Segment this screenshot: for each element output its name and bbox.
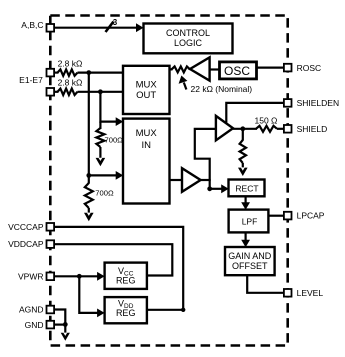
svg-text:3: 3 [113,18,118,27]
node dot vcccap corner [181,308,185,312]
svg-text:2.8 kΩ: 2.8 kΩ [58,59,83,69]
arrow into gain [241,240,250,248]
svg-text:VDDCAP: VDDCAP [8,239,44,249]
bus slash [106,22,114,33]
wire shield amp input [195,129,216,189]
arrow into control logic [136,23,144,32]
svg-text:SHIELD: SHIELD [297,124,328,134]
wire inverter to osc [210,68,220,70]
arrow into vcc reg [97,272,105,281]
resistor 2.8k upper [58,69,78,75]
resistor 700 lower [85,183,93,208]
pin VPWR [47,273,55,281]
osc box [220,62,257,79]
node dot rect in [207,186,212,191]
lpf box [229,210,269,233]
svg-text:LPF: LPF [242,216,258,226]
svg-text:GAIN AND: GAIN AND [228,251,272,261]
pin VCCCAP [47,223,55,231]
buffer amp [182,168,201,192]
wire rect to lpf [245,196,247,204]
rect box [229,180,265,197]
open arrow down shield resistor [238,168,248,176]
pin SHIELDEN [284,99,292,107]
svg-text:OFFSET: OFFSET [232,261,268,271]
svg-text:OUT: OUT [136,90,156,101]
pin LEVEL [284,289,292,297]
wire E1 upper [55,71,59,73]
svg-text:LOGIC: LOGIC [174,38,203,48]
wire to rect [210,188,223,190]
wire shielden [226,103,284,123]
svg-text:ROSC: ROSC [297,63,322,73]
wire E1 branch down [88,73,90,184]
arrow into vdd reg [97,309,105,318]
node dot gnd [63,322,68,327]
svg-text:REG: REG [116,308,136,318]
svg-text:GND: GND [25,320,44,330]
resistor 700 upper [99,122,101,129]
inverter to osc [190,57,210,80]
svg-text:A,B,C: A,B,C [21,20,43,30]
vdd reg box [105,297,147,323]
wire 150 to shield pin [277,128,283,130]
gain and offset box [225,247,275,275]
chip boundary dashed [50,16,287,346]
wire shield out to 150 [233,128,257,130]
wire buffer out [201,179,211,181]
node dot E2 [98,89,103,94]
wire vpwr [55,275,99,277]
svg-text:MUX: MUX [136,128,158,139]
ground arrow [61,333,70,341]
svg-text:CONTROL: CONTROL [166,28,210,38]
resistor 2.8k lower [58,89,78,95]
svg-text:150 Ω: 150 Ω [255,115,278,125]
vcc reg box [105,263,147,289]
svg-text:E1-E7: E1-E7 [19,75,43,85]
mux out U2 [123,66,170,114]
svg-text:VPWR: VPWR [18,271,44,281]
wire E2 branch down to mux in [100,92,117,122]
svg-text:IN: IN [141,140,151,151]
svg-text:LPCAP: LPCAP [297,211,325,221]
resistor shield internal [242,129,244,141]
svg-text:RECT: RECT [235,184,258,194]
wire lpf to gain [245,232,247,241]
pin AGND [47,306,55,314]
wire mux out to 22k [170,68,173,70]
wire E1 lower [55,91,59,93]
svg-text:REG: REG [116,275,136,285]
wire to mux in lower [89,174,117,176]
wire gnd [55,324,66,326]
wire osc to rosc [257,66,284,68]
node dot E1 [86,70,91,75]
pin A,B,C [47,24,55,32]
svg-text:700Ω: 700Ω [105,135,124,144]
svg-text:AGND: AGND [19,305,44,315]
open arrow down 700 upper [96,158,106,166]
svg-text:LEVEL: LEVEL [297,288,324,298]
arrow into mux in lower [116,171,124,180]
control logic U1 [144,24,233,54]
arrow into rect [221,184,229,193]
wire vcccap [55,227,183,310]
arrow into lpf [241,202,250,210]
wire agnd [55,310,66,335]
wire lpf to lpcap [268,215,283,217]
svg-text:VCCCAP: VCCCAP [8,222,44,232]
wire gain to level [247,275,283,293]
svg-text:MUX: MUX [136,80,158,91]
svg-text:700Ω: 700Ω [95,189,114,198]
pin LPCAP [284,212,292,220]
open arrow down 700 lower [84,213,94,221]
pin VDDCAP [47,240,55,248]
wiper arrow 22k [184,83,187,90]
svg-text:OSC: OSC [224,64,250,78]
mux in U3 [123,119,170,204]
node dot mux in lower [86,173,91,178]
pin E1-E7 upper [47,69,55,77]
wire vddcap [55,244,173,275]
svg-text:SHIELDEN: SHIELDEN [297,98,340,108]
svg-text:2.8 kΩ: 2.8 kΩ [58,78,83,88]
node dot vpwr [77,274,82,279]
wire vpwr to vdd reg [79,276,98,313]
wire A,B,C to control logic [55,27,138,29]
svg-text:22 kΩ (Nominal): 22 kΩ (Nominal) [191,84,253,94]
arrow into mux in upper [116,117,124,126]
resistor 150 [256,126,277,132]
shield driver amp [216,116,233,140]
resistor 22k [172,66,191,72]
pin GND [47,321,55,329]
wire mux in to buffer [170,179,183,181]
pin ROSC [284,64,292,72]
pin SHIELD [284,125,292,133]
pin E1-E7 lower [47,88,55,96]
node dot shield [240,126,245,131]
